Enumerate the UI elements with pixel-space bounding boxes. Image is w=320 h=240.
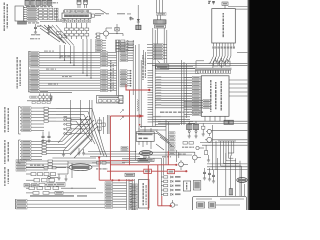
CIA joystick pin labels right [120,70,132,87]
red trace between filter boxes [151,170,167,172]
clock net label boxes column [147,44,167,60]
cassette lower components [26,173,68,182]
value smears serial area [28,2,66,23]
RF modulator box [193,196,247,214]
cassette wires right [26,161,48,170]
label box CN9 above CIA2 [125,173,135,176]
junction verticals from serial area [59,45,74,66]
keyboard row wires group 1 [39,53,101,66]
control port 1 caps to ground [41,132,50,143]
transistor Q7 video [192,152,201,163]
wire right horizontal at y130 [211,130,247,132]
label box CN6 [138,158,154,161]
vertical text label KEYBOARD [17,57,21,89]
wire oscillator output [109,33,123,36]
IC U21 right of diodes [183,181,190,191]
control bus lines upper from CPU [155,66,199,73]
address data bus lines from CPU to right [155,77,192,100]
wire right mid horizontals [200,143,248,146]
ground right section [207,155,210,162]
wire dot phi [144,50,146,65]
capacitor C91 with ground [47,25,53,35]
cassette series resistors [48,160,68,168]
wire port1 diagonals down-right to pots [76,108,107,157]
cassette lower row 4 [26,191,103,194]
user port ladder connector [130,179,135,210]
red component box FB2 [167,170,174,174]
bottom long wires [15,199,105,209]
junction verticals from 7406 outputs [82,39,91,79]
red trace horizontal y180 [99,179,134,181]
wire fan port1 to mid [56,108,92,121]
wire diagonals center down-left [58,128,92,158]
wire serial to gates [40,8,62,22]
wire clock bus vertical pair [164,28,167,64]
wire video bus verticals down to modulator [226,153,242,196]
wire port2 diagonals up-right [62,116,98,154]
wire VIC pins down with bends [210,49,231,69]
transistor Q1 oscillator [100,28,112,39]
net label dashes top left [95,13,109,14]
net label box above oscillator [157,13,167,16]
wire horizontals video section [146,152,195,158]
oval connector CN6 paddle hatched [140,150,153,155]
note text line bottom left [30,195,87,197]
net value smears video section [143,154,186,158]
crystal box Y2 hatched [136,25,141,30]
modulator inner wires [196,199,244,205]
crystal pair hatched below U17 [187,121,199,129]
pot trimmer components near SID [98,115,109,134]
cassette wire verticals [67,161,72,178]
gate box U18 above CPU pins [156,65,169,69]
wire three horizontals x158-190 [158,122,195,127]
red trace horizontal y206 [158,205,172,207]
VIC bottom pin stubs and labels [212,43,235,49]
bus note smudge band [160,112,203,113]
bus ripper arcs right of CIA [137,100,138,112]
red trace vertical x162 stub [161,196,163,206]
red trace horizontal y160 [99,160,127,162]
control port 2 rc network [42,141,55,155]
wire vertical at x138 [137,5,139,30]
component box C1L2 [193,181,201,191]
wire bus above U8 [64,10,107,14]
trimmer arrows near red path [117,96,124,120]
keyboard row pin labels group 1 [30,52,40,67]
cassette lower row 3 [26,187,96,190]
bottom bus label boxes [16,199,27,209]
CIA U1 vertical text [110,60,114,92]
small box U28 right of U8 [92,14,102,17]
transistor Q8 near modulator [170,200,178,207]
wire 556 top pins [139,126,151,132]
oscillator trim box [155,25,166,28]
control port 2 pin labels [22,140,32,160]
CIA U1 port pin labels [120,42,128,62]
CIA2 inner pin labels [130,184,138,211]
vertical text label CONTROL PORT 1 [4,107,9,132]
red trace vertical x158 [157,165,159,206]
wire staircase bus nested corners [218,141,241,166]
CIA U1 left edge verticals [117,40,119,96]
red trace horizontal y165 [110,164,177,166]
pin header blocks above U17 [214,57,231,66]
keyboard connector CN1 pin grid [116,40,135,51]
bypass capacitors above VIC [208,1,215,5]
transistor Q4 right [205,137,248,142]
CIA right bus verticals [133,40,141,160]
modulator inner box 2 [209,202,216,208]
clock generator IC U17 8701 [201,76,229,117]
keyboard column wires group 2 [39,71,101,91]
caps and grounds right of U21 [203,168,215,183]
cassette area extra components [26,165,68,181]
wire keyboard labels to CIA [108,53,117,91]
wire verticals center [71,100,92,139]
resistor network at Q1 base [95,33,100,38]
capacitor C10 near diode [129,17,133,21]
keyboard column pin labels group 2 [30,70,40,92]
transistor Q6 video [179,160,188,170]
control port 1 wires right [31,108,44,130]
modulator inner box 1 [197,202,205,208]
component cluster left of user port [24,183,65,187]
wire horizontals port2 to user port area [84,151,148,157]
wire group right top [196,53,248,69]
small components right mid cluster [182,142,208,155]
red trace vertical x110 [109,116,111,180]
pin row above clock IC U17 [195,70,232,74]
cassette pin labels [16,160,26,171]
diode CR4 [137,19,140,25]
wire bottom right verticals [218,158,245,196]
net label column right of 556 [169,132,175,155]
video IC U19 6567 VIC-II [212,9,236,43]
wires labels to CIA2 [113,183,127,207]
wire stack above CIA2 [122,159,150,163]
red trace vertical x99 [98,156,100,180]
crystal oscillator Y3 hatched can [154,20,167,24]
wire verticals bottom center-right [161,158,163,196]
keyboard line tick smears [44,51,72,85]
user port left pin labels [105,182,113,209]
transistor Q3 right [206,129,211,136]
resistor diode rows audio video [161,176,181,196]
CPU U7 vertical reference text [142,55,146,80]
wire oscillator to divider [158,15,161,44]
red trace after FB2 [175,170,188,172]
crystal Y1 box [115,24,119,34]
vertical text label SERIAL BUS connector [4,3,8,32]
row of ICs at top edge [25,0,53,7]
pin header J1 at top edge [77,0,81,8]
CIA bottom box [97,96,124,104]
net label boxes above CN9 [121,147,128,152]
diode and resistor grid below U8 [65,23,89,39]
lower pin lines from CPU long [155,99,210,109]
U8 label text row above [63,10,89,11]
component dark box right [224,120,233,124]
connector CN2 serial bus [15,6,27,22]
wire verticals near Q6 [177,150,179,162]
hex inverter U8 7406 [62,13,91,19]
capacitor C90 with ground [34,24,41,34]
CIA2 U2 left edge [127,179,130,210]
wire bus bend into memory area [140,120,168,165]
quartz box above VIC [222,2,228,9]
wire VIC bus horizontals to bar [147,63,248,67]
red component box FB1 [144,169,152,173]
red trace horizontal y116 with arrow [110,114,144,125]
red trace vertical x148 to bottom [147,165,149,210]
control port 1 pin labels [22,107,32,132]
paddle capacitor row C [64,116,90,135]
wire right bottom horizontals [207,164,248,170]
wire horizontals into 556 area [136,126,158,133]
timer IC U20 556 [136,132,154,149]
U8 output pin labels [63,19,91,23]
wire U17 right pins to edge [229,80,248,96]
serial bus pin label boxes [27,6,37,21]
wire bus verticals left of U17 [182,60,187,125]
vertical text label CASSETTE [4,167,9,186]
wire clock vertical from top edge [157,0,163,16]
wire vertical right section [213,125,217,170]
red trace vertical x129 [129,90,131,165]
scan border black bar [247,0,280,210]
wire restore row [30,91,72,93]
keyboard single row wire [30,67,101,69]
component blobs left of red junction [92,162,110,170]
ground symbols center bottom [62,148,85,157]
red trace horizontal +5V y90 [126,85,151,92]
wire diagonals right of 556 [156,131,172,150]
oval connector CN4 hatched [69,164,92,171]
wire port2 to mid [55,142,70,154]
wire cassette bus to right [52,158,129,166]
wire VIC right pins to edge [228,6,248,9]
pull-up boxes in serial fan [30,32,66,40]
CPU left pin stubs [148,71,153,122]
U17 left pin label column [192,76,200,115]
pull-up resistor grid RP4 [37,8,58,20]
wire horizontals below U17 [186,121,248,123]
trim capacitor adjust circles with grounds [188,123,205,138]
resistor pack RP1 below keyboard rows [27,94,52,104]
vertical text label CONTROL PORT 2 [4,140,9,164]
wire clock to VIC horizontal [158,61,232,69]
keyboard connector bracket [28,52,30,93]
control port 2 connector bracket [19,140,22,163]
lower pin lines from CPU short [153,116,190,125]
wire U17 pins to left [184,78,192,115]
red trace vertical x168 stub [167,151,169,165]
net label dashes top mid [117,13,131,14]
ferrite bead hatched on video line [229,189,232,195]
keyboard pin label column mid [101,52,108,92]
keyboard connector CN1 pin stack left [96,40,107,52]
wire long vertical bus pair CPU [153,28,155,126]
component P6 below connector [18,22,27,25]
red trace horizontal y171 through filters [107,170,144,172]
U17 bottom pin components [205,116,225,121]
pin header J2 at top edge [84,0,88,8]
oval connector CN5 AV hatched [237,177,247,182]
control port 2 wires right [31,142,42,160]
wire fan from serial connector to gates [40,25,74,46]
control port 1 connector bracket [19,107,22,135]
control port 1 rc network [44,107,56,122]
CIA2 U2 body [139,180,150,209]
wire CIA pins to bus right [128,43,134,61]
